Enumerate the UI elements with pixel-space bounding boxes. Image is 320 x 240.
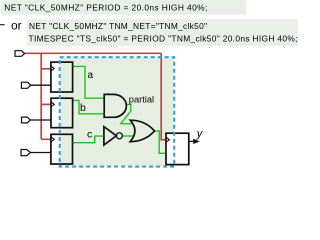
svg-text:TIMESPEC "TS_clk50" = PERIOD ": TIMESPEC "TS_clk50" = PERIOD "TNM_clk50"… <box>29 34 298 44</box>
svg-text:partial: partial <box>129 95 154 105</box>
FF2 clock marker <box>51 102 54 106</box>
svg-text:or: or <box>11 18 22 32</box>
wire clk top (red) <box>25 52 161 54</box>
flip-flop FF1 <box>51 62 73 92</box>
wire clk stub FF1 (red) <box>41 68 51 70</box>
wire net c (green) <box>73 136 105 143</box>
FF4 clock marker <box>166 138 169 142</box>
selection dashed border <box>60 57 175 166</box>
input pad P3 <box>22 117 31 123</box>
wire net a (green) <box>73 66 105 98</box>
svg-text:y: y <box>196 128 204 140</box>
svg-text:NET "CLK_50MHZ" PERIOD = 20.0n: NET "CLK_50MHZ" PERIOD = 20.0ns HIGH 40%… <box>4 2 207 12</box>
inverter bubble <box>116 133 122 139</box>
inverter U2 <box>104 127 116 145</box>
wire OR output to FF4 D (green) <box>155 131 167 153</box>
wire clk stub FF2 (red) <box>41 103 51 105</box>
wire D input FF2 (black) <box>30 119 51 121</box>
svg-text:a: a <box>88 70 94 81</box>
svg-text:c: c <box>87 129 92 141</box>
AND gate U1 <box>104 94 126 117</box>
flip-flop FF3 <box>51 134 73 164</box>
selection region green fill <box>60 58 174 166</box>
wire D input FF1 (black) <box>31 84 51 86</box>
wire net b (green) <box>73 100 105 113</box>
FF4 output arrow <box>189 140 193 142</box>
wire clk stub FF3 (red) <box>41 138 51 140</box>
FF3 clock marker <box>51 137 54 141</box>
input pad P4 <box>21 150 30 156</box>
FF1 clock marker <box>51 66 54 70</box>
input pad P2 <box>21 82 30 88</box>
flip-flop FF2 <box>51 98 73 128</box>
wire inverter output to OR (green) <box>123 135 134 137</box>
input pad P1 <box>15 51 25 57</box>
svg-text:b: b <box>80 102 86 114</box>
wire clk bus vertical (red) <box>40 53 42 139</box>
flip-flop FF4 <box>166 133 189 164</box>
OR gate U3 <box>130 120 154 141</box>
dash before or <box>0 24 5 26</box>
wire clk right vertical (red) <box>161 53 166 139</box>
code highlight band line 1 <box>1 0 246 15</box>
code highlight band lines 2-3 <box>27 19 298 46</box>
wire AND output to OR (green) <box>121 104 133 123</box>
wire D input FF3 (black) <box>30 152 51 154</box>
svg-text:NET "CLK_50MHZ" TNM_NET="TNM_c: NET "CLK_50MHZ" TNM_NET="TNM_clk50" <box>29 21 207 31</box>
